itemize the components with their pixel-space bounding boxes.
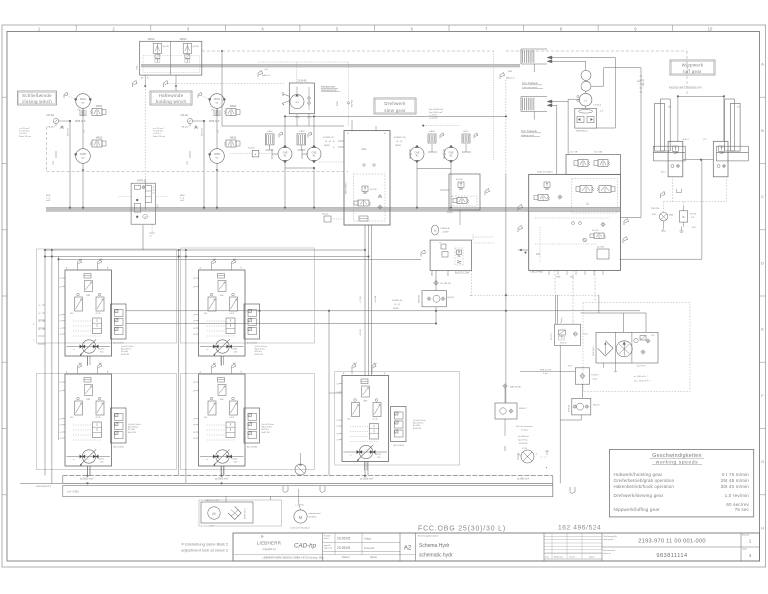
svg-text:E: E xyxy=(761,327,764,332)
wire block bottom drops to bus xyxy=(87,356,89,366)
port flags right of block xyxy=(624,219,629,226)
svg-text:+C 3/16: +C 3/16 xyxy=(360,296,362,303)
svg-text:10: 10 xyxy=(708,26,713,31)
wire rail junction dots extra xyxy=(44,256,46,258)
svg-text:M011: M011 xyxy=(80,98,86,101)
svg-text:50: 50 xyxy=(193,315,195,317)
svg-text:luff gear: luff gear xyxy=(683,69,702,74)
pump assembly enclosure row1 col1 xyxy=(37,249,177,343)
hose mark closing xyxy=(55,151,57,158)
wire E06 line xyxy=(640,68,642,218)
left ruler ticks xyxy=(2,96,7,98)
svg-text:approved: approved xyxy=(324,547,332,550)
wire handpump bottom line xyxy=(222,125,344,127)
svg-text:A01: A01 xyxy=(79,362,82,365)
svg-text:RV (B1 SP: RV (B1 SP xyxy=(441,283,452,285)
wire KPX xyxy=(504,388,506,403)
svg-text:G: G xyxy=(761,459,764,464)
KOT spring top xyxy=(561,318,563,324)
svg-text:W830: W830 xyxy=(180,37,187,41)
svg-text:KOT/C: KOT/C xyxy=(560,343,567,345)
svg-text:50: 50 xyxy=(60,432,62,434)
rope drum lower cable arrows xyxy=(547,100,552,103)
svg-text:BI-PS/B: BI-PS/B xyxy=(352,99,354,107)
svg-text:1RØ: 1RØ xyxy=(363,401,368,403)
title block outline xyxy=(233,533,760,561)
slew block spool valve xyxy=(358,200,369,206)
port flag luffing left 2 xyxy=(518,226,523,233)
main pump of block 342,375.5 xyxy=(344,451,388,453)
svg-text:Δp=170 bar: Δp=170 bar xyxy=(121,348,132,351)
svg-text:KB-D6: KB-D6 xyxy=(448,297,455,299)
luffing pilot valve 40-Y1B2 xyxy=(598,160,608,167)
title block drawing number cell xyxy=(602,546,760,548)
svg-text:2193-970 11 00 001-000: 2193-970 11 00 001-000 xyxy=(638,539,705,545)
svg-text:DB2B: DB2B xyxy=(395,145,401,147)
svg-text:50: 50 xyxy=(60,391,62,393)
luffing cylinder left base plates xyxy=(653,146,685,152)
wire pump drops left xyxy=(284,168,286,207)
svg-text:50: 50 xyxy=(60,321,62,323)
wire T symbol near bus xyxy=(540,456,547,458)
aux pump circle xyxy=(579,93,592,106)
svg-text:B=42 VB: B=42 VB xyxy=(262,432,271,434)
svg-text:50: 50 xyxy=(193,438,195,440)
svg-text:Vɡ= 9500 cm³: Vɡ= 9500 cm³ xyxy=(429,111,443,114)
svg-text:nₘₐₓ 1700 m³⋅h⁻¹: nₘₐₓ 1700 m³⋅h⁻¹ xyxy=(634,380,651,383)
pressure gauge holding xyxy=(187,118,192,123)
wire dashed pilot return rail y171 xyxy=(47,171,349,173)
cooler dotted enclosure xyxy=(583,303,690,392)
svg-text:MH8 20 B: MH8 20 B xyxy=(68,127,70,136)
svg-text:KMSOW: KMSOW xyxy=(568,404,570,412)
wire main rail y257 xyxy=(45,256,369,258)
svg-text:A2-Y03/04: A2-Y03/04 xyxy=(247,342,258,345)
winch valve 2 holding xyxy=(226,140,236,147)
check RV B1 SP xyxy=(434,280,439,285)
svg-text:W95LB05-S: W95LB05-S xyxy=(576,131,588,133)
wire block20A ports xyxy=(431,270,433,276)
svg-text:2 bar: 2 bar xyxy=(592,378,597,381)
svg-text:KB-D10: KB-D10 xyxy=(48,127,56,129)
svg-text:M011: M011 xyxy=(214,98,220,101)
wire aux unit connections xyxy=(585,61,587,70)
svg-text:T2D: T2D xyxy=(651,335,655,337)
wire cooler motor xyxy=(298,489,300,504)
svg-text:KOMPL-W: KOMPL-W xyxy=(323,137,334,139)
svg-text:Zeichnungs-Nr.: Zeichnungs-Nr. xyxy=(604,536,618,538)
svg-text:ca 600 mm³: ca 600 mm³ xyxy=(517,478,529,481)
aux drive gear circle 2 xyxy=(581,81,591,91)
title block sheet cells xyxy=(740,533,742,561)
pump block at 65,270 xyxy=(65,270,112,356)
svg-text:23.05.05: 23.05.05 xyxy=(337,546,350,550)
wire x436 to rail xyxy=(435,307,437,324)
svg-text:K0PV-2: K0PV-2 xyxy=(137,180,146,183)
svg-text:40-505°: 40-505° xyxy=(322,214,329,216)
svg-text:B=42 VB: B=42 VB xyxy=(255,354,264,356)
slew block top ports xyxy=(351,120,353,131)
svg-text:+13 B: +13 B xyxy=(229,313,235,315)
prop valve box at 244,408 xyxy=(244,408,260,443)
svg-text:CHE: CHE xyxy=(449,152,454,154)
wire gray band junction dots xyxy=(69,207,71,209)
svg-text:Δp=170 bar: Δp=170 bar xyxy=(262,426,273,429)
slew gear block CHL xyxy=(344,131,390,225)
wire cylinder rods xyxy=(677,96,679,141)
pump block at 198.5,270 xyxy=(199,270,246,356)
svg-text:N=73 kW: N=73 kW xyxy=(519,443,527,445)
luffing block left valves xyxy=(544,182,550,187)
svg-text:A01: A01 xyxy=(233,362,236,365)
port flag cylinder xyxy=(661,192,666,199)
svg-text:DB2B: DB2B xyxy=(324,145,330,147)
port flag pump left xyxy=(279,132,283,138)
svg-text:0 t 76 m/min: 0 t 76 m/min xyxy=(722,472,749,477)
svg-text:KOMPL-DB: KOMPL-DB xyxy=(394,137,406,139)
svg-text:DB1B: DB1B xyxy=(429,131,435,133)
svg-text:860C: 860C xyxy=(337,100,339,106)
check RAV 38 BD xyxy=(503,384,507,388)
port flag H03 xyxy=(500,73,505,80)
svg-text:DB1C: DB1C xyxy=(463,131,469,133)
svg-text:+13 B: +13 B xyxy=(95,417,101,419)
luffing cylinder right tubes xyxy=(730,103,740,151)
pump left port tees xyxy=(271,149,273,159)
port flags CHE pumps xyxy=(440,133,444,139)
svg-text:+13 B: +13 B xyxy=(95,313,101,315)
svg-text:LIEBHERR: LIEBHERR xyxy=(257,541,281,546)
svg-text:[4]-185: [4]-185 xyxy=(163,46,170,48)
svg-text:50: 50 xyxy=(39,329,41,331)
svg-text:+ CW: + CW xyxy=(208,526,214,528)
svg-text:A01: A01 xyxy=(213,258,216,261)
wire cylinder dotted drops xyxy=(671,176,673,201)
svg-text:CA.MOX CXD: CA.MOX CXD xyxy=(205,499,219,502)
svg-text:50: 50 xyxy=(193,432,195,434)
svg-text:+13 B: +13 B xyxy=(229,417,235,419)
svg-text:GLB: GLB xyxy=(295,102,300,104)
wire dashed rail drop x687 xyxy=(686,51,688,96)
port flag brake left xyxy=(133,81,138,88)
pump CHD2 xyxy=(307,147,321,161)
svg-text:+13 B: +13 B xyxy=(372,419,378,421)
svg-text:W602: W602 xyxy=(447,212,453,214)
svg-text:50: 50 xyxy=(337,426,339,428)
slew block check xyxy=(379,195,381,197)
svg-text:FCC.OBG 25(30)/30 L): FCC.OBG 25(30)/30 L) xyxy=(418,526,506,533)
svg-text:(W08 1-0-30B-C: (W08 1-0-30B-C xyxy=(537,172,553,174)
svg-text:K0PP: K0PP xyxy=(214,153,221,156)
svg-text:E10′: E10′ xyxy=(692,227,697,229)
svg-text:CHL: CHL xyxy=(361,147,367,151)
pump assembly enclosure row2 col1 xyxy=(37,374,177,470)
svg-text:SOK 200-S: SOK 200-S xyxy=(593,346,595,356)
wire KOPV drain below xyxy=(151,224,153,233)
pilot valve 40-Y60 xyxy=(252,150,259,157)
cooler check box 2 KMSOW xyxy=(572,398,591,415)
svg-text:2 bar: 2 bar xyxy=(543,372,548,375)
svg-text:(L): (L) xyxy=(586,203,589,206)
svg-text:+53 bar: +53 bar xyxy=(46,114,54,117)
svg-text:KO1-Y17: KO1-Y17 xyxy=(551,333,553,340)
svg-text:DB1V: DB1V xyxy=(299,131,305,133)
svg-text:50: 50 xyxy=(39,305,41,307)
svg-text:50: 50 xyxy=(337,420,339,422)
wire brake box drop xyxy=(175,75,177,91)
wire gray supply band top xyxy=(141,64,520,67)
svg-text:50: 50 xyxy=(337,440,339,442)
port flag block20A xyxy=(421,250,426,257)
aux drive gear circle 1 xyxy=(581,70,591,80)
svg-text:DB16: DB16 xyxy=(267,131,273,133)
luffing gray channel xyxy=(529,207,620,211)
svg-text:drawing no.: drawing no. xyxy=(604,539,615,541)
svg-text:to repar: to repar xyxy=(521,429,528,432)
svg-text:Hubwerk/hoisting gear: Hubwerk/hoisting gear xyxy=(614,472,663,477)
svg-text:LIEBHERR-WERK NENZING GMBH: LIEBHERR-WERK NENZING GMBH A-6710 Nenzin… xyxy=(262,557,324,560)
svg-text:z.the ring winch: z.the ring winch xyxy=(522,86,538,89)
svg-text:BLOCK 20A: BLOCK 20A xyxy=(455,271,469,275)
svg-text:MH8 20 B: MH8 20 B xyxy=(202,127,204,136)
wire bus left extension xyxy=(20,483,63,485)
svg-text:KMB: KMB xyxy=(556,277,561,279)
svg-text:2,5/14,6: 2,5/14,6 xyxy=(593,105,602,107)
svg-text:50: 50 xyxy=(193,278,195,280)
svg-text:Haltewinde: Haltewinde xyxy=(159,93,184,98)
svg-text:Schema Hydr: Schema Hydr xyxy=(419,543,450,549)
wire pump CHE drops xyxy=(416,169,418,208)
svg-text:25t 48 m/min: 25t 48 m/min xyxy=(721,478,750,483)
hand pump handle xyxy=(283,94,290,97)
slew block inner dashed xyxy=(354,174,385,221)
solenoid coil DB1B xyxy=(428,134,436,143)
port flag brake right xyxy=(164,81,169,88)
svg-text:1RØ: 1RØ xyxy=(86,295,91,297)
winch motor 2 closing xyxy=(76,149,91,164)
svg-text:(RL,): (RL,) xyxy=(661,172,666,174)
svg-text:NO cafe vacumpar: NO cafe vacumpar xyxy=(516,426,533,428)
svg-text:40-Y08: 40-Y08 xyxy=(456,179,463,181)
svg-text:CHE: CHE xyxy=(415,152,420,154)
cooler check box KMSOW xyxy=(422,291,446,307)
svg-text:76 sec: 76 sec xyxy=(735,507,750,512)
luffing block upper box xyxy=(566,154,620,174)
winch motor M011 closing xyxy=(76,94,91,109)
flags above pump blocks row2 xyxy=(78,364,82,370)
svg-text:MB12: MB12 xyxy=(96,105,103,108)
svg-text:A01: A01 xyxy=(374,362,377,365)
svg-text:nₐᵣ 300 m³⋅h⁻¹: nₐᵣ 300 m³⋅h⁻¹ xyxy=(634,375,648,378)
tank hook 3 xyxy=(570,487,575,494)
svg-text:Seta= 29 mm: Seta= 29 mm xyxy=(19,135,31,138)
svg-text:Vɡ= 32,85 cm³: Vɡ= 32,85 cm³ xyxy=(429,108,444,111)
label box Drehwerk xyxy=(374,98,416,114)
svg-text:50: 50 xyxy=(193,287,195,289)
cooler assembly box xyxy=(596,332,658,363)
svg-text:50: 50 xyxy=(337,434,339,436)
wire dashed top rail segment B xyxy=(506,50,687,52)
svg-text:B: B xyxy=(761,128,764,133)
svg-text:Δp=170 bar: Δp=170 bar xyxy=(255,348,266,351)
wire block20A dotted top xyxy=(472,234,474,240)
svg-text:Drehwerk: Drehwerk xyxy=(384,101,406,106)
svg-text:H: H xyxy=(761,525,764,530)
svg-text:Δp=17′ bar: Δp=17′ bar xyxy=(518,439,528,442)
svg-text:50: 50 xyxy=(60,382,62,384)
wire dotted enclosure handpump xyxy=(258,61,348,63)
svg-text:B=42 VB: B=42 VB xyxy=(413,428,422,430)
pump assembly enclosure row1 col2 xyxy=(181,248,315,343)
svg-text:Δp=170 bar: Δp=170 bar xyxy=(413,422,424,425)
top ruler ticks and numbers xyxy=(75,25,77,32)
svg-text:A01: A01 xyxy=(213,362,216,365)
working speeds table xyxy=(609,449,753,517)
svg-text:40-Y09: 40-Y09 xyxy=(592,230,599,232)
svg-text:KLKB: KLKB xyxy=(98,349,104,351)
port flag luffing left 1 xyxy=(518,205,523,212)
hose mark holding xyxy=(189,151,191,158)
solenoid coil DB16 left xyxy=(265,134,274,145)
svg-text:Blattzahl: Blattzahl xyxy=(742,534,749,537)
svg-text:DWC W3K07: DWC W3K07 xyxy=(346,181,348,194)
title block logo cell xyxy=(322,533,324,561)
svg-text:KOMPL-05: KOMPL-05 xyxy=(392,300,403,302)
cylinder valve block right xyxy=(713,141,728,177)
wire dotted port lines xyxy=(144,75,146,86)
svg-text:Voigt: Voigt xyxy=(364,537,371,541)
cooler bypass diamond xyxy=(598,341,613,356)
svg-text:KM-017: KM-017 xyxy=(519,408,527,410)
svg-text:50: 50 xyxy=(193,334,195,336)
svg-text:adjustment look at sheet 2: adjustment look at sheet 2 xyxy=(181,548,228,553)
luffing cylinder right base plates xyxy=(717,146,749,152)
wire main rail y311 xyxy=(126,310,640,312)
pump CHE#1 xyxy=(410,147,424,161)
svg-text:50: 50 xyxy=(60,334,62,336)
svg-text:50: 50 xyxy=(60,328,62,330)
svg-text:Identnummer: Identnummer xyxy=(604,549,616,552)
svg-text:K6B: K6B xyxy=(669,215,674,217)
svg-text:W810: W810 xyxy=(148,37,155,41)
svg-text:50: 50 xyxy=(60,278,62,280)
svg-text:Benennung/description: Benennung/description xyxy=(418,535,438,538)
label box Schliesswinde xyxy=(18,91,57,105)
wire KOPV drop xyxy=(142,225,144,250)
svg-text:40-Y07C: 40-Y07C xyxy=(637,366,646,368)
valve box KOT/C xyxy=(555,324,581,345)
filler check diamond xyxy=(228,507,241,520)
pump block at 342,375.5 xyxy=(342,376,389,462)
svg-text:CHE: CHE xyxy=(283,152,288,154)
tank line manifold box xyxy=(63,486,553,497)
svg-text:50: 50 xyxy=(60,419,62,421)
KOPV port marks xyxy=(157,204,159,206)
valve box KM-017 xyxy=(495,403,517,419)
svg-text:+53.8 B: +53.8 B xyxy=(360,329,362,336)
svg-text:1,0 rev/min: 1,0 rev/min xyxy=(725,493,750,498)
svg-text:A01: A01 xyxy=(354,362,357,365)
pump assembly enclosure center xyxy=(335,372,460,466)
svg-text:E-KLJ: E-KLJ xyxy=(683,139,689,141)
svg-text:10.5L/min² M=20bar: 10.5L/min² M=20bar xyxy=(290,527,310,530)
svg-text:834-2-D: 834-2-D xyxy=(643,79,645,86)
svg-text:1RØ: 1RØ xyxy=(220,295,225,297)
prop valve box at 244,304 xyxy=(244,304,260,339)
wire pilot pair into KOT xyxy=(554,295,556,324)
wire manifold verticals center col xyxy=(328,311,330,476)
winch brake valve MB12 closing xyxy=(92,109,102,116)
label box Haltewinde xyxy=(150,91,192,105)
wire bus drop from KM-017 xyxy=(504,446,506,451)
svg-text:Lfd-Nr: Lfd-Nr xyxy=(742,549,747,551)
drain hook left cyl xyxy=(676,189,681,193)
svg-text:40-Y1B: 40-Y1B xyxy=(570,152,578,154)
winch brake valve MB12 holding xyxy=(226,109,236,116)
pump CHD1 xyxy=(278,147,292,161)
svg-text:B=42 VB: B=42 VB xyxy=(128,432,137,434)
svg-text:A2-Y03/04: A2-Y03/04 xyxy=(114,342,125,345)
svg-text:(3↔(3: (3↔(3 xyxy=(394,304,401,306)
svg-text:Datum: Datum xyxy=(569,555,575,558)
svg-text:✶ Einstellung siehe Blatt 2: ✶ Einstellung siehe Blatt 2 xyxy=(181,542,229,547)
svg-text:50: 50 xyxy=(60,438,62,440)
svg-text:MH8 12 5: MH8 12 5 xyxy=(209,120,220,123)
svg-text:Δp=170 bar: Δp=170 bar xyxy=(128,426,139,429)
tank hook 1 xyxy=(283,486,288,493)
wire x506 vertical xyxy=(505,80,507,174)
wire drop lines holding xyxy=(203,121,205,210)
svg-text:n₀= 95 mm ³: n₀= 95 mm ³ xyxy=(153,127,164,130)
svg-text:50: 50 xyxy=(193,391,195,393)
svg-text:⊗: ⊗ xyxy=(682,215,685,219)
svg-text:M: M xyxy=(212,512,215,516)
wire manifold verticals mid col xyxy=(178,250,180,476)
wire filler to tank xyxy=(225,496,227,502)
svg-text:A01: A01 xyxy=(99,258,102,261)
svg-text:GLB-45: GLB-45 xyxy=(298,79,307,83)
luffing main spool xyxy=(580,186,592,193)
svg-text:RAV 38 BD: RAV 38 BD xyxy=(510,386,521,389)
brake valve manifold W810/W830 xyxy=(140,41,202,75)
svg-text:Copyright (c): Copyright (c) xyxy=(262,548,275,551)
rope drum upper cable arrows xyxy=(547,56,552,59)
wire manifold verticals left col xyxy=(44,250,46,476)
pump block at 198.5,374 xyxy=(199,374,246,466)
wire main rail y250 xyxy=(45,249,365,251)
svg-text:CHE: CHE xyxy=(312,152,317,154)
svg-text:holding winch: holding winch xyxy=(156,99,187,104)
svg-text:KOS12: KOS12 xyxy=(591,375,599,377)
svg-text:K0PP: K0PP xyxy=(80,153,87,156)
svg-text:50: 50 xyxy=(60,287,62,289)
main pump of block 65,270 xyxy=(67,346,111,348)
wire W602 drop xyxy=(459,210,461,225)
svg-text:(BA4-2-D: (BA4-2-D xyxy=(506,77,515,80)
svg-text:50: 50 xyxy=(39,321,41,323)
port flag H63 xyxy=(258,71,263,78)
wire dotted rail y243 xyxy=(474,242,494,244)
wire cooler drains xyxy=(603,363,605,368)
title block change grid xyxy=(543,533,545,561)
svg-text:n=W: n=W xyxy=(180,200,184,202)
svg-text:KB-D6: KB-D6 xyxy=(593,405,600,407)
pressure gauge closing xyxy=(53,118,58,123)
wire pilot supply verticals xyxy=(556,105,558,174)
svg-text:A2-Y03/04: A2-Y03/04 xyxy=(247,446,258,449)
svg-text:ca 2000 mm³: ca 2000 mm³ xyxy=(215,478,229,481)
svg-text:50: 50 xyxy=(337,384,339,386)
